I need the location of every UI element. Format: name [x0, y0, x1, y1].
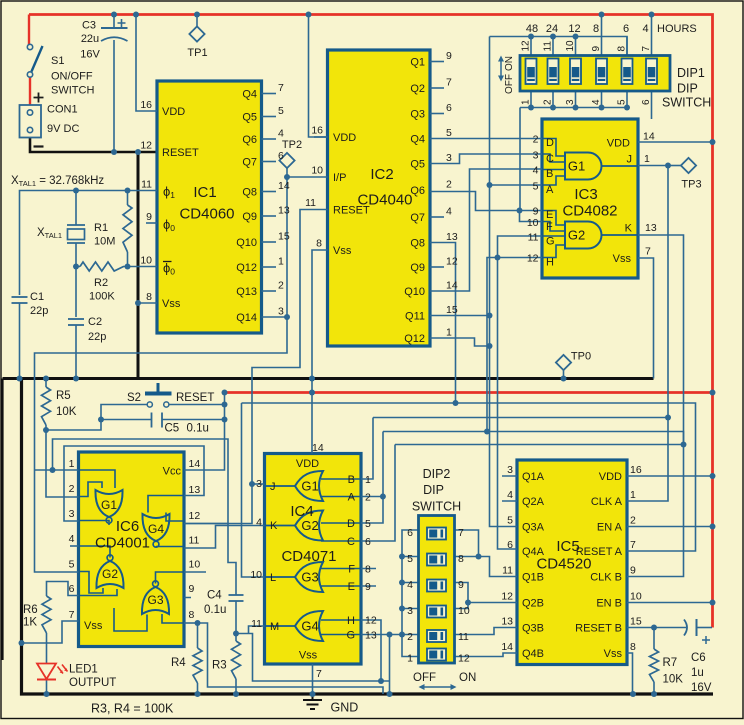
svg-text:10: 10 [140, 255, 152, 267]
svg-text:4: 4 [533, 165, 539, 177]
svg-text:R2: R2 [94, 277, 108, 289]
svg-text:Q10: Q10 [236, 237, 257, 249]
svg-text:7: 7 [641, 46, 652, 52]
svg-text:10K: 10K [56, 406, 77, 418]
svg-text:RESET: RESET [176, 392, 214, 404]
svg-text:14: 14 [278, 180, 290, 192]
svg-text:Q10: Q10 [404, 286, 425, 298]
svg-text:7: 7 [278, 82, 284, 94]
svg-text:Q2B: Q2B [522, 598, 544, 610]
svg-text:8: 8 [593, 23, 599, 35]
svg-text:13: 13 [189, 484, 201, 496]
svg-text:C: C [347, 536, 355, 548]
svg-text:13: 13 [278, 205, 290, 217]
svg-text:11: 11 [251, 618, 262, 630]
svg-text:11: 11 [189, 535, 200, 547]
svg-text:1K: 1K [23, 617, 37, 629]
svg-text:11: 11 [502, 565, 513, 577]
svg-text:Q4: Q4 [242, 89, 257, 101]
svg-text:C: C [546, 153, 554, 165]
svg-text:13: 13 [645, 222, 657, 234]
svg-text:6: 6 [623, 23, 629, 35]
svg-text:5: 5 [69, 559, 75, 571]
svg-text:IC1: IC1 [193, 184, 216, 201]
svg-text:K: K [625, 223, 633, 235]
svg-text:R6: R6 [23, 604, 38, 616]
svg-text:VDD: VDD [607, 138, 630, 150]
svg-text:Q3: Q3 [410, 109, 425, 121]
svg-text:R4: R4 [171, 657, 186, 669]
svg-text:B: B [546, 168, 553, 180]
svg-text:0.1u: 0.1u [187, 423, 209, 435]
svg-text:100K: 100K [89, 291, 115, 303]
svg-text:G4: G4 [301, 619, 318, 634]
svg-text:Q9: Q9 [242, 211, 257, 223]
svg-text:1: 1 [365, 474, 371, 486]
svg-text:G2: G2 [301, 518, 318, 533]
svg-text:S2: S2 [127, 392, 141, 404]
svg-text:Q12: Q12 [236, 262, 257, 274]
svg-text:6: 6 [407, 527, 413, 539]
svg-text:CD4082: CD4082 [562, 203, 617, 220]
svg-text:3: 3 [69, 508, 75, 520]
svg-text:CD4520: CD4520 [536, 556, 591, 573]
svg-text:2: 2 [543, 99, 554, 105]
svg-text:A: A [546, 184, 554, 196]
svg-text:12: 12 [140, 140, 152, 152]
svg-text:4: 4 [69, 533, 75, 545]
svg-text:4: 4 [642, 23, 648, 35]
svg-text:Q1: Q1 [410, 57, 425, 69]
svg-text:1u: 1u [691, 667, 704, 679]
svg-text:DIP1: DIP1 [677, 66, 705, 80]
svg-text:7: 7 [316, 668, 322, 680]
svg-text:Q4B: Q4B [522, 648, 544, 660]
svg-text:Q13: Q13 [236, 286, 257, 298]
svg-text:RESET: RESET [162, 147, 199, 159]
svg-text:E: E [348, 581, 355, 593]
svg-text:G3: G3 [301, 570, 318, 585]
svg-text:G2: G2 [568, 228, 585, 243]
svg-text:1: 1 [407, 653, 413, 665]
svg-text:3: 3 [507, 464, 513, 476]
svg-text:6: 6 [278, 150, 284, 162]
svg-text:LED1: LED1 [69, 664, 98, 676]
svg-text:24: 24 [546, 23, 558, 35]
svg-text:Q6: Q6 [242, 134, 257, 146]
svg-text:L: L [270, 572, 276, 584]
svg-text:Q12: Q12 [404, 333, 425, 345]
svg-text:J: J [270, 481, 276, 493]
svg-text:9V DC: 9V DC [47, 123, 79, 135]
svg-text:0.1u: 0.1u [204, 604, 226, 616]
svg-text:Q2A: Q2A [522, 496, 545, 508]
svg-text:Q6: Q6 [410, 185, 425, 197]
svg-text:Vss: Vss [613, 253, 632, 265]
svg-text:Vcc: Vcc [163, 466, 182, 478]
svg-text:48: 48 [526, 23, 538, 35]
svg-text:Q1A: Q1A [522, 471, 545, 483]
svg-text:Q4: Q4 [410, 134, 425, 146]
svg-text:H: H [546, 257, 554, 269]
svg-text:14: 14 [189, 458, 201, 470]
svg-text:Vss: Vss [604, 648, 623, 660]
svg-text:7: 7 [645, 246, 651, 258]
svg-text:IC2: IC2 [370, 166, 393, 183]
svg-text:5: 5 [507, 515, 513, 527]
svg-text:4: 4 [507, 489, 513, 501]
svg-text:Q5: Q5 [410, 159, 425, 171]
svg-text:16V: 16V [691, 682, 712, 694]
svg-text:16: 16 [311, 125, 323, 137]
svg-text:3: 3 [407, 605, 413, 617]
svg-text:CON1: CON1 [47, 104, 78, 116]
svg-text:5: 5 [533, 181, 539, 193]
svg-text:A: A [348, 492, 356, 504]
svg-text:C2: C2 [88, 316, 102, 328]
svg-text:15: 15 [630, 616, 642, 628]
svg-text:EN B: EN B [596, 598, 622, 610]
svg-text:4: 4 [446, 206, 452, 218]
svg-text:OUTPUT: OUTPUT [69, 677, 116, 689]
svg-text:1: 1 [630, 489, 636, 501]
svg-text:14: 14 [312, 442, 324, 454]
svg-text:OFF: OFF [413, 672, 436, 684]
svg-text:12: 12 [446, 256, 458, 268]
svg-text:Q8: Q8 [242, 187, 257, 199]
svg-text:9: 9 [146, 211, 152, 223]
svg-text:1: 1 [446, 327, 452, 339]
svg-text:ON: ON [459, 672, 476, 684]
svg-text:TP2: TP2 [282, 139, 302, 151]
svg-text:7: 7 [458, 527, 464, 539]
svg-text:3: 3 [446, 152, 452, 164]
svg-text:10: 10 [527, 217, 539, 229]
svg-text:E: E [546, 209, 553, 221]
svg-text:6: 6 [69, 583, 75, 595]
svg-text:DIP: DIP [677, 82, 698, 96]
svg-text:12: 12 [189, 510, 201, 522]
svg-text:R1: R1 [94, 222, 108, 234]
svg-text:CD4060: CD4060 [179, 206, 234, 223]
svg-text:Vss: Vss [299, 650, 318, 662]
svg-text:11: 11 [141, 179, 152, 191]
svg-text:10: 10 [250, 569, 262, 581]
svg-text:EN A: EN A [597, 522, 623, 534]
svg-text:9: 9 [458, 579, 464, 591]
svg-text:10K: 10K [663, 674, 684, 686]
svg-text:22p: 22p [88, 331, 106, 343]
svg-text:11: 11 [305, 197, 316, 209]
svg-text:M: M [270, 621, 279, 633]
svg-text:CD4001: CD4001 [95, 535, 150, 552]
svg-text:2: 2 [278, 280, 284, 292]
svg-text:R3: R3 [212, 660, 227, 672]
svg-text:C5: C5 [165, 423, 180, 435]
svg-text:C6: C6 [691, 652, 706, 664]
svg-text:2: 2 [630, 515, 636, 527]
svg-text:9: 9 [189, 583, 195, 595]
svg-text:Q1B: Q1B [522, 572, 544, 584]
svg-text:F: F [348, 564, 355, 576]
svg-text:9: 9 [533, 206, 539, 218]
svg-text:VDD: VDD [296, 458, 319, 470]
svg-text:7: 7 [446, 77, 452, 89]
svg-text:G2: G2 [102, 567, 118, 581]
svg-text:Q8: Q8 [410, 238, 425, 250]
svg-text:15: 15 [446, 304, 458, 316]
svg-text:10: 10 [565, 40, 576, 52]
svg-text:R5: R5 [56, 390, 71, 402]
svg-text:1: 1 [278, 256, 284, 268]
svg-text:F: F [546, 221, 553, 233]
svg-text:CD4071: CD4071 [281, 548, 336, 565]
svg-text:IC6: IC6 [116, 518, 139, 535]
svg-text:Q7: Q7 [410, 212, 425, 224]
svg-text:G4: G4 [148, 522, 164, 536]
svg-text:1: 1 [69, 458, 75, 470]
svg-text:G1: G1 [568, 159, 585, 174]
svg-text:G1: G1 [301, 479, 318, 494]
svg-text:11: 11 [528, 232, 539, 244]
svg-text:3: 3 [533, 150, 539, 162]
svg-text:4: 4 [256, 517, 262, 529]
svg-text:S1: S1 [51, 55, 64, 67]
svg-text:16: 16 [140, 99, 152, 111]
svg-text:ON/OFF: ON/OFF [51, 71, 93, 83]
svg-text:13: 13 [365, 630, 377, 642]
svg-text:7: 7 [69, 609, 75, 621]
svg-text:14: 14 [446, 280, 458, 292]
svg-text:C3: C3 [82, 20, 96, 32]
svg-text:12: 12 [458, 653, 470, 665]
svg-text:8: 8 [365, 564, 371, 576]
svg-text:TP3: TP3 [681, 179, 701, 191]
svg-text:CLK B: CLK B [590, 572, 622, 584]
svg-text:CLK A: CLK A [591, 496, 623, 508]
svg-text:ON: ON [504, 56, 515, 71]
svg-text:CD4040: CD4040 [357, 192, 412, 209]
svg-text:9: 9 [446, 50, 452, 62]
svg-text:8: 8 [316, 238, 322, 250]
svg-text:Vss: Vss [333, 245, 352, 257]
svg-text:Q3A: Q3A [522, 522, 545, 534]
svg-text:5: 5 [365, 518, 371, 530]
svg-text:TP1: TP1 [187, 47, 207, 59]
svg-text:1: 1 [521, 99, 532, 105]
svg-text:10: 10 [458, 605, 470, 617]
svg-text:Q3B: Q3B [522, 623, 544, 635]
svg-text:I/P: I/P [333, 172, 346, 184]
svg-text:Q2: Q2 [410, 83, 425, 95]
svg-text:SWITCH: SWITCH [51, 85, 94, 97]
svg-text:OFF: OFF [504, 74, 515, 94]
svg-text:13: 13 [446, 231, 458, 243]
svg-text:4: 4 [407, 579, 413, 591]
svg-text:IC4: IC4 [290, 503, 313, 520]
svg-text:10: 10 [189, 559, 201, 571]
svg-text:12: 12 [501, 591, 513, 603]
svg-text:14: 14 [643, 131, 655, 143]
svg-text:Q5: Q5 [242, 112, 257, 124]
svg-text:10M: 10M [94, 236, 115, 248]
svg-text:Q14: Q14 [236, 312, 257, 324]
svg-text:6: 6 [507, 539, 513, 551]
svg-text:SWITCH: SWITCH [662, 96, 711, 110]
svg-text:12: 12 [527, 253, 539, 265]
svg-text:9: 9 [630, 565, 636, 577]
svg-text:2: 2 [407, 631, 413, 643]
svg-text:8: 8 [617, 46, 628, 52]
svg-text:DIP2: DIP2 [423, 467, 451, 481]
svg-text:Q7: Q7 [242, 157, 257, 169]
svg-text:GND: GND [331, 701, 359, 715]
svg-text:VDD: VDD [599, 471, 622, 483]
svg-text:22p: 22p [30, 305, 48, 317]
svg-text:C4: C4 [207, 590, 222, 602]
svg-text:4: 4 [591, 99, 602, 105]
svg-text:2: 2 [69, 483, 75, 495]
svg-text:22u: 22u [81, 33, 99, 45]
svg-text:6: 6 [365, 536, 371, 548]
svg-text:IC5: IC5 [556, 538, 579, 555]
svg-text:2: 2 [446, 179, 452, 191]
svg-text:4: 4 [278, 128, 284, 140]
svg-text:16V: 16V [80, 49, 100, 61]
svg-text:8: 8 [458, 553, 464, 565]
svg-text:Q11: Q11 [405, 311, 425, 323]
svg-text:G3: G3 [147, 593, 163, 607]
svg-text:HOURS: HOURS [657, 23, 697, 35]
svg-text:10: 10 [630, 591, 642, 603]
svg-text:K: K [270, 520, 278, 532]
svg-text:8: 8 [189, 609, 195, 621]
svg-text:5: 5 [446, 127, 452, 139]
svg-text:J: J [627, 154, 633, 166]
svg-text:C1: C1 [30, 291, 44, 303]
svg-text:9: 9 [365, 581, 371, 593]
svg-text:Vss: Vss [84, 620, 103, 632]
svg-text:3: 3 [565, 99, 576, 105]
svg-text:12: 12 [521, 40, 532, 52]
svg-text:Q9: Q9 [410, 262, 425, 274]
svg-text:13: 13 [501, 616, 513, 628]
svg-text:VDD: VDD [333, 132, 356, 144]
svg-text:11: 11 [543, 41, 554, 52]
svg-text:G1: G1 [101, 498, 117, 512]
svg-text:15: 15 [278, 231, 290, 243]
svg-text:SWITCH: SWITCH [412, 500, 461, 514]
svg-text:TP0: TP0 [571, 351, 591, 363]
svg-text:1: 1 [644, 153, 650, 165]
svg-text:8: 8 [146, 291, 152, 303]
svg-text:5: 5 [407, 553, 413, 565]
svg-text:12: 12 [568, 23, 580, 35]
svg-text:9: 9 [591, 46, 602, 52]
svg-text:R3, R4 = 100K: R3, R4 = 100K [91, 702, 174, 716]
svg-text:G: G [546, 236, 555, 248]
svg-text:G: G [346, 630, 355, 642]
svg-text:12: 12 [365, 615, 377, 627]
svg-text:IC3: IC3 [574, 186, 597, 203]
svg-text:2: 2 [533, 134, 539, 146]
svg-text:6: 6 [641, 99, 652, 105]
svg-text:11: 11 [458, 631, 469, 643]
svg-text:7: 7 [630, 539, 636, 551]
svg-text:16: 16 [630, 464, 642, 476]
svg-text:5: 5 [617, 99, 628, 105]
svg-text:RESET B: RESET B [575, 623, 622, 635]
svg-text:3: 3 [278, 306, 284, 318]
svg-text:10: 10 [311, 165, 323, 177]
svg-text:14: 14 [501, 641, 513, 653]
svg-text:8: 8 [630, 641, 636, 653]
svg-text:Vss: Vss [162, 298, 181, 310]
svg-text:B: B [348, 474, 355, 486]
svg-text:D: D [546, 137, 554, 149]
svg-text:2: 2 [365, 492, 371, 504]
svg-text:D: D [347, 518, 355, 530]
svg-text:6: 6 [446, 102, 452, 114]
svg-text:DIP: DIP [423, 483, 444, 497]
svg-text:R7: R7 [663, 657, 678, 669]
svg-text:3: 3 [256, 478, 262, 490]
svg-text:H: H [347, 615, 355, 627]
svg-text:5: 5 [278, 105, 284, 117]
svg-text:VDD: VDD [162, 106, 185, 118]
